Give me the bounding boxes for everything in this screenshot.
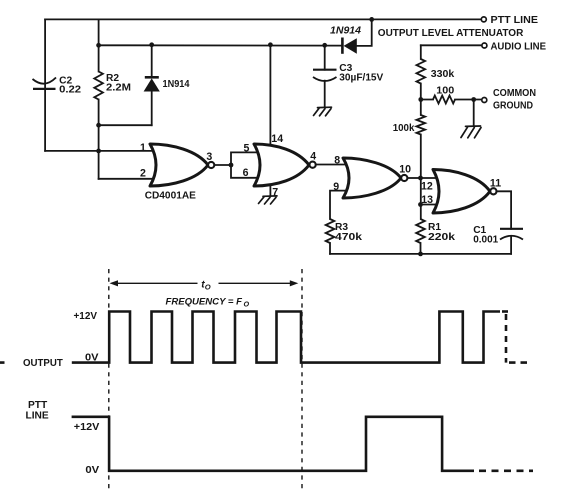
svg-text:1N914: 1N914 xyxy=(163,79,190,90)
svg-text:100: 100 xyxy=(436,85,454,96)
svg-text:PTT: PTT xyxy=(28,400,48,411)
svg-text:GROUND: GROUND xyxy=(493,100,533,111)
svg-text:1N914: 1N914 xyxy=(330,26,361,37)
svg-text:9: 9 xyxy=(333,181,339,193)
svg-text:2: 2 xyxy=(140,168,146,180)
svg-text:13: 13 xyxy=(421,194,433,206)
svg-text:11: 11 xyxy=(490,178,501,190)
svg-text:O: O xyxy=(244,300,250,309)
svg-text:+12V: +12V xyxy=(74,311,98,322)
svg-text:330k: 330k xyxy=(431,69,455,80)
svg-text:8: 8 xyxy=(334,155,340,167)
svg-text:0.001: 0.001 xyxy=(473,234,498,245)
svg-text:6: 6 xyxy=(243,167,249,179)
svg-text:0V: 0V xyxy=(85,353,99,364)
svg-text:10: 10 xyxy=(399,163,411,175)
svg-text:tO: tO xyxy=(201,280,210,292)
svg-text:FREQUENCY = F: FREQUENCY = F xyxy=(166,295,243,306)
svg-text:PTT LINE: PTT LINE xyxy=(491,15,539,26)
svg-text:0V: 0V xyxy=(85,465,99,476)
svg-text:+12V: +12V xyxy=(74,422,100,433)
svg-text:CD4001AE: CD4001AE xyxy=(145,190,196,201)
svg-text:7: 7 xyxy=(272,187,278,199)
svg-text:470k: 470k xyxy=(335,232,362,243)
svg-text:COMMON: COMMON xyxy=(493,88,536,99)
svg-text:100k: 100k xyxy=(393,123,415,134)
svg-text:3: 3 xyxy=(206,151,212,163)
svg-text:12: 12 xyxy=(421,181,433,193)
svg-text:OUTPUT: OUTPUT xyxy=(23,358,64,369)
svg-text:LINE: LINE xyxy=(26,411,49,422)
svg-text:30µF/15V: 30µF/15V xyxy=(339,73,383,84)
svg-text:14: 14 xyxy=(271,133,283,145)
svg-text:0.22: 0.22 xyxy=(59,84,81,95)
svg-text:AUDIO LINE: AUDIO LINE xyxy=(491,42,547,53)
svg-text:220k: 220k xyxy=(428,232,455,243)
svg-text:4: 4 xyxy=(310,151,316,163)
svg-text:2.2M: 2.2M xyxy=(106,82,131,93)
svg-text:1: 1 xyxy=(140,142,146,154)
svg-text:OUTPUT LEVEL ATTENUATOR: OUTPUT LEVEL ATTENUATOR xyxy=(378,28,524,39)
svg-text:5: 5 xyxy=(244,142,250,154)
